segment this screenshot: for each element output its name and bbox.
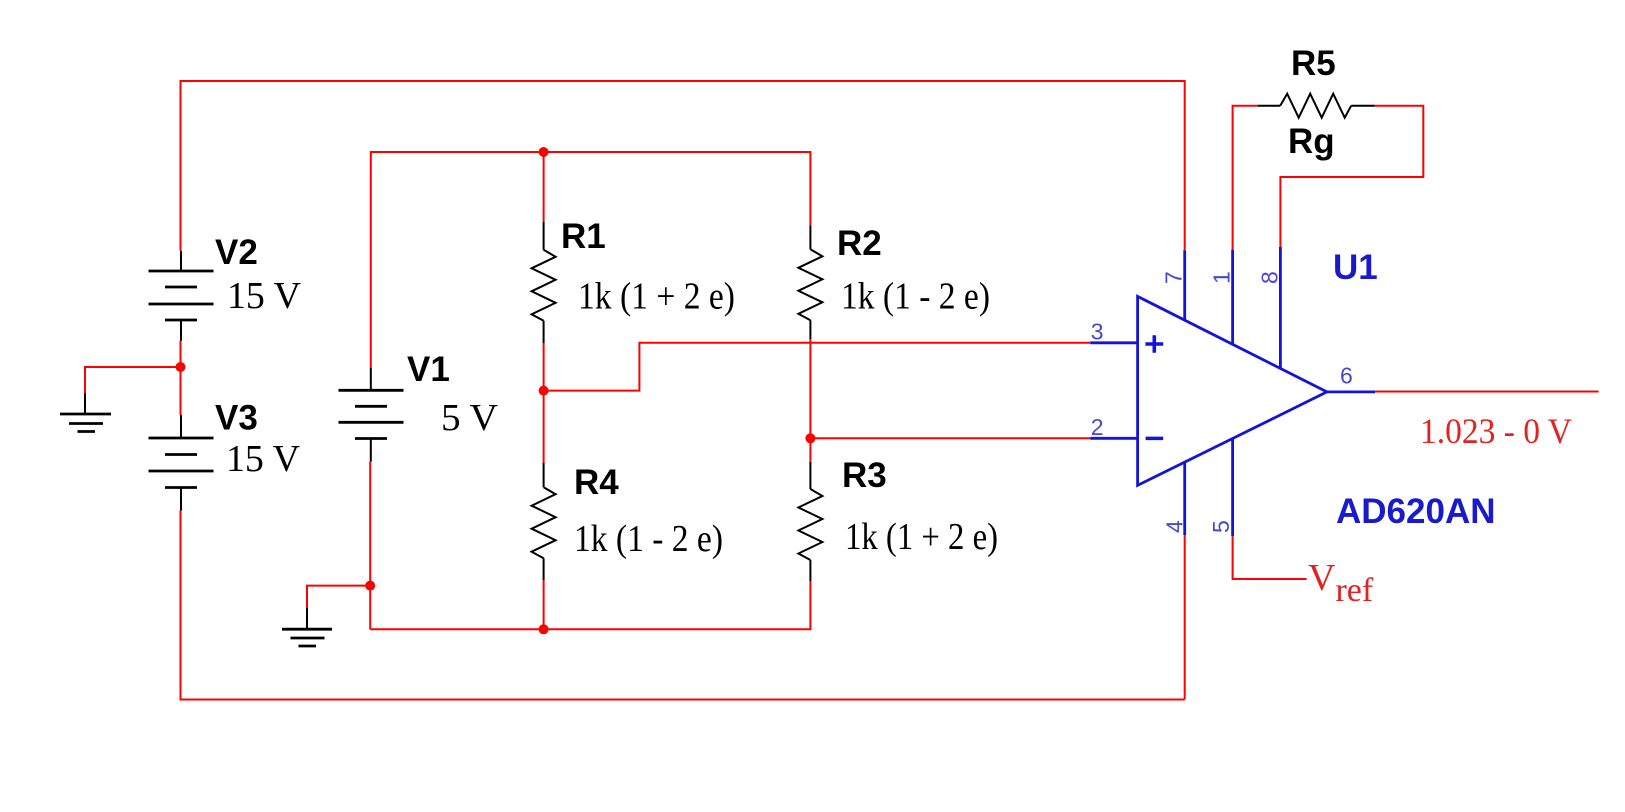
wire node B to R3 [809,438,811,462]
wire R5 right lead bend down to pin 8 [1280,106,1423,247]
op-amp pin 8 stub [1279,247,1282,368]
wire bridge top rail with V1 and R2 drops [371,152,811,368]
wire V3 minus down, outer bottom rail [181,511,1185,700]
resistor R5 [1258,94,1375,118]
node A bridge left mid junction [539,386,549,396]
battery V2 [149,251,214,341]
svg-text:15 V: 15 V [227,275,302,317]
svg-text:2: 2 [1091,414,1104,440]
svg-text:Rg: Rg [1288,122,1335,161]
op-amp pin 6 stub [1327,390,1375,393]
svg-text:R5: R5 [1291,44,1336,83]
resistor R4 [532,463,556,580]
op-amp plus input mark [1145,335,1163,353]
resistor R1 [532,222,556,343]
op-amp pin 4 stub [1183,462,1186,535]
op-amp pin 7 stub [1183,250,1186,320]
svg-text:1k (1 - 2 e): 1k (1 - 2 e) [841,276,990,318]
op-amp pin 5 stub [1231,439,1234,537]
op-amp pin 1 stub [1231,250,1234,345]
wire node A to R4 [543,391,545,463]
svg-text:R1: R1 [561,217,606,256]
wire center node to V3 plus [180,367,182,415]
node center supplies junction [176,362,186,372]
wire node A step to op-amp pin 3 [544,343,1091,391]
wire V2 minus to center node [180,341,182,367]
wire R5 left lead down to pin 1 [1233,106,1258,250]
svg-text:U1: U1 [1333,248,1378,287]
svg-text:V2: V2 [215,233,258,272]
op-amp U1 triangle [1138,296,1327,485]
svg-text:V3: V3 [215,399,258,438]
wire bridge bottom rail up to R3 [370,581,810,629]
resistor R3 [798,462,822,581]
ground 2 [282,608,332,646]
svg-text:R3: R3 [842,456,887,495]
svg-text:1.023 - 0 V: 1.023 - 0 V [1420,411,1572,451]
svg-text:R2: R2 [837,224,882,263]
node V1 ground junction [365,581,375,591]
svg-text:R4: R4 [574,463,619,502]
svg-text:5: 5 [1208,520,1234,533]
svg-text:8: 8 [1257,271,1283,284]
op-amp pin 3 stub [1090,341,1137,344]
wire node B to op-amp pin 2 [810,437,1090,439]
node B bridge right mid junction [805,433,815,443]
node top rail R1 junction [539,147,549,157]
op-amp pin 2 stub [1090,437,1137,440]
wire center node to ground 1 [85,367,181,393]
wire R4 bottom to bridge bottom rail [543,580,545,629]
resistor R2 [798,225,822,339]
svg-text:6: 6 [1340,363,1353,389]
wire R2 bottom to node B [809,339,811,438]
svg-text:1: 1 [1209,271,1235,284]
svg-text:V1: V1 [407,350,450,389]
svg-text:4: 4 [1162,520,1188,533]
svg-text:7: 7 [1161,271,1187,284]
svg-text:1k (1 - 2 e): 1k (1 - 2 e) [574,518,723,560]
svg-text:1k (1 + 2 e): 1k (1 + 2 e) [845,516,998,558]
wire top rail to R1 [543,152,545,222]
svg-text:AD620AN: AD620AN [1336,492,1496,531]
svg-text:5 V: 5 V [441,397,499,439]
node bottom rail R4 junction [539,624,549,634]
svg-text:1k (1 + 2 e): 1k (1 + 2 e) [578,276,735,318]
svg-text:15 V: 15 V [226,438,301,480]
wire V1 ground tap to ground 2 [307,586,370,608]
wire pin 4 to bottom rail [1184,535,1186,700]
wire V1 minus down to bottom rail corner [369,462,371,630]
op-amp minus input mark [1146,437,1164,441]
svg-text:3: 3 [1091,318,1104,344]
wire op-amp output pin 6 [1375,391,1599,393]
battery V3 [149,415,214,511]
svg-text:Vref: Vref [1308,557,1374,609]
battery V1 [339,368,404,462]
wire R1 bottom to node A [543,343,545,391]
ground 1 [60,393,111,432]
wire pin 5 to Vref [1233,536,1307,579]
wire outer loop: left vertical, top rail, right vertical to pin 7 [181,81,1185,251]
